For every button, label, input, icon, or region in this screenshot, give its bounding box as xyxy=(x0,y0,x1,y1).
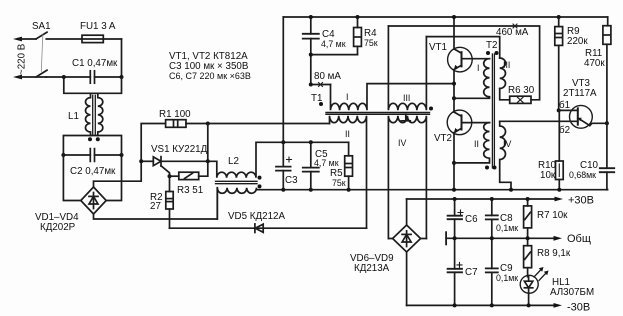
svg-text:C2 0,47мк: C2 0,47мк xyxy=(70,166,116,177)
wire top rail xyxy=(283,16,607,18)
node dot T2-IV rail xyxy=(509,188,513,192)
resistor R5 xyxy=(348,142,350,156)
resistor R4 xyxy=(357,17,359,28)
transistor VT1 xyxy=(448,47,490,72)
capacitor C8 xyxy=(486,199,498,238)
svg-text:~220 В: ~220 В xyxy=(17,43,28,75)
transformer T1 winding I xyxy=(331,84,455,111)
svg-text:C3: C3 xyxy=(285,175,298,186)
arrow -30V xyxy=(554,303,563,308)
resistor R9 xyxy=(558,17,560,27)
arrow +30V xyxy=(555,197,564,202)
wire R1 right to T1 winding II xyxy=(186,123,330,125)
svg-text:II: II xyxy=(345,129,350,139)
svg-text:IV: IV xyxy=(503,139,511,149)
node dot R9 top xyxy=(557,15,561,19)
svg-text:IV: IV xyxy=(398,138,406,148)
svg-text:КД213А: КД213А xyxy=(354,263,390,274)
svg-text:-30В: -30В xyxy=(567,302,590,314)
node dot VS1 cathode node xyxy=(206,159,210,163)
svg-text:470к: 470к xyxy=(584,58,605,69)
node dots C1 line xyxy=(62,75,66,79)
svg-text:I: I xyxy=(477,63,479,73)
svg-text:АЛ307БМ: АЛ307БМ xyxy=(550,287,594,298)
svg-text:R3 51: R3 51 xyxy=(177,185,203,196)
capacitor C6 xyxy=(448,199,463,238)
capacitor C10 xyxy=(600,123,614,189)
node dot b1 xyxy=(557,108,561,112)
bridge rectifier VD1-VD4 xyxy=(81,187,106,214)
wire C1 line xyxy=(46,76,90,78)
svg-text:VS1 КУ221Д: VS1 КУ221Д xyxy=(151,144,208,155)
capacitor C3 electrolytic xyxy=(276,142,292,189)
wire VT2 emitter xyxy=(453,133,455,190)
svg-text:R6 30: R6 30 xyxy=(508,85,535,96)
capacitor C5 xyxy=(303,142,319,189)
wire 460mA loop top xyxy=(388,26,539,100)
svg-text:27: 27 xyxy=(150,201,161,212)
node dot VT2 emitter rail xyxy=(452,188,456,192)
svg-text:R7 10к: R7 10к xyxy=(537,210,568,221)
wire obsh line xyxy=(446,237,553,239)
T1 winding I phase dot xyxy=(319,102,323,106)
svg-text:C6: C6 xyxy=(465,214,478,225)
T2 phase dots bottom xyxy=(485,166,489,170)
T2 phase dots top xyxy=(486,51,490,55)
node dot C5 bottom xyxy=(309,188,313,192)
resistor R7 xyxy=(527,199,529,206)
T1 core xyxy=(326,113,430,115)
svg-text:КД202Р: КД202Р xyxy=(40,222,76,233)
svg-text:VD5 КД212А: VD5 КД212А xyxy=(228,211,285,222)
svg-text:0,1мк: 0,1мк xyxy=(496,223,518,233)
fuse FU1 xyxy=(82,35,103,42)
node dot R1 out xyxy=(206,122,210,126)
svg-text:I: I xyxy=(346,92,348,102)
resistor R8 xyxy=(527,238,529,245)
inductor L2 bottom winding xyxy=(217,188,256,219)
L1 phase dots xyxy=(88,137,92,141)
node dot VT3 emitter R11 xyxy=(605,121,609,125)
transformer T1 winding II xyxy=(330,116,367,229)
current mark x 460mA xyxy=(513,24,517,28)
wire L1 top box xyxy=(64,77,122,93)
svg-text:II: II xyxy=(474,139,479,149)
wire R2 bottom xyxy=(169,209,171,228)
svg-text:80 мА: 80 мА xyxy=(314,71,341,82)
node dot R10 bottom xyxy=(557,188,561,192)
node dots obsh line xyxy=(453,236,457,240)
node dot VT1 collector rail xyxy=(452,15,456,19)
wire minus rail middle xyxy=(256,189,607,191)
node dot R4 top xyxy=(356,15,360,19)
node dot T2-II to bus xyxy=(452,161,456,165)
node dot T1-I to bus xyxy=(452,82,456,86)
svg-text:R8 9,1к: R8 9,1к xyxy=(537,248,571,259)
svg-text:75к: 75к xyxy=(332,178,346,188)
wire bridge2 plus up xyxy=(406,199,408,225)
svg-text:III: III xyxy=(403,93,410,103)
wire bridge left xyxy=(63,155,80,201)
capacitor C7 xyxy=(448,238,462,305)
resistor R1 xyxy=(166,120,186,128)
wire L1 bottom box xyxy=(63,136,121,156)
svg-text:0,1мк: 0,1мк xyxy=(496,273,518,283)
wire main plus riser xyxy=(282,17,284,142)
node dot T2-I to bus xyxy=(452,96,456,100)
wire bridge2 minus down xyxy=(406,252,408,305)
L2 core xyxy=(216,181,258,183)
svg-text:VT2: VT2 xyxy=(434,133,452,144)
svg-text:0,68мк: 0,68мк xyxy=(569,170,596,180)
diode VD5 xyxy=(255,224,263,233)
svg-text:FU1 3 A: FU1 3 A xyxy=(80,21,116,32)
wire right vertical to C1 line xyxy=(121,39,123,77)
transformer T1 winding III xyxy=(388,26,426,110)
svg-text:+30В: +30В xyxy=(568,195,594,207)
T2 core xyxy=(492,54,494,168)
wire bridge plus output to R1 xyxy=(94,124,166,188)
LED HL1 xyxy=(520,267,548,305)
capacitor C4 xyxy=(303,17,319,85)
wire VT1 collector xyxy=(453,17,455,49)
L1 core xyxy=(93,95,96,134)
wire C4R4 bottom link xyxy=(311,54,358,56)
svg-text:10к: 10к xyxy=(540,170,556,181)
wire -30V line xyxy=(407,304,554,306)
T1 shield xyxy=(401,114,410,121)
node dot C3 bottom xyxy=(281,188,285,192)
node dot gate junction xyxy=(168,174,172,178)
wire VD5 rail xyxy=(170,227,255,229)
svg-text:L2: L2 xyxy=(228,156,239,167)
transformer T1 winding IV xyxy=(388,116,426,239)
svg-text:VT1: VT1 xyxy=(429,42,447,53)
wire VT1 emitter bus xyxy=(453,70,455,112)
svg-text:III: III xyxy=(503,60,510,70)
node dots +30V line xyxy=(453,197,457,201)
switch SA1 xyxy=(36,32,47,77)
svg-text:С6, С7 220 мк ×63В: С6, С7 220 мк ×63В xyxy=(169,71,251,81)
svg-text:4,7 мк: 4,7 мк xyxy=(321,39,346,49)
svg-text:2Т117А: 2Т117А xyxy=(563,88,597,99)
svg-text:460 мА: 460 мА xyxy=(496,27,529,38)
current mark x 80mA xyxy=(319,83,323,87)
resistor R3 xyxy=(170,175,179,177)
svg-text:L1: L1 xyxy=(68,111,79,122)
wire R3 right up to node xyxy=(199,124,208,177)
transistor VT3 unijunction xyxy=(559,105,607,128)
transformer T2 winding IV xyxy=(500,121,511,189)
wire bridge minus output xyxy=(94,188,218,219)
transistor VT2 xyxy=(447,110,489,135)
L2 phase dots xyxy=(258,176,262,180)
wire C10 rail corner xyxy=(606,189,609,191)
svg-text:б2: б2 xyxy=(559,125,570,136)
transformer T2 winding III xyxy=(500,58,506,88)
svg-text:75к: 75к xyxy=(364,38,378,48)
node dot R5 bottom xyxy=(347,188,351,192)
wire bridge2 left stub xyxy=(388,238,392,240)
bridge rectifier VD6-VD9 xyxy=(393,225,421,252)
transformer T2 winding II xyxy=(454,123,490,163)
node dots -30V line xyxy=(453,303,457,307)
thyristor VS1 xyxy=(141,157,208,177)
transformer T2 winding I xyxy=(454,59,490,99)
svg-text:Общ: Общ xyxy=(567,233,591,245)
resistor R10 xyxy=(558,110,560,161)
svg-text:220к: 220к xyxy=(567,36,588,47)
svg-text:SA1: SA1 xyxy=(32,21,51,32)
node dots C2 line xyxy=(61,153,65,157)
svg-text:4,7 мк: 4,7 мк xyxy=(314,158,339,168)
node dots on node wire y142 xyxy=(281,140,285,144)
svg-text:T2: T2 xyxy=(486,40,497,51)
svg-text:б1: б1 xyxy=(559,100,570,111)
wire 80mA branch xyxy=(311,84,331,86)
capacitor C2 xyxy=(90,149,94,162)
svg-text:C1 0,47мк: C1 0,47мк xyxy=(72,58,118,69)
wire bridge2 right stub xyxy=(421,238,427,240)
wire top to fuse xyxy=(46,38,121,40)
resistor R2 xyxy=(169,176,171,191)
wire C2 line xyxy=(63,154,90,156)
svg-text:R1 100: R1 100 xyxy=(159,109,191,120)
wire bridge right xyxy=(106,155,121,201)
resistor R11 xyxy=(607,17,609,26)
choke L1 windings xyxy=(85,93,102,135)
T1 winding III phase dot xyxy=(429,107,433,111)
node dot 80mA xyxy=(309,83,313,87)
svg-text:C7: C7 xyxy=(465,267,478,278)
capacitor C1 xyxy=(90,71,94,83)
node dot VS1 anode xyxy=(139,159,143,163)
wire +30V line xyxy=(407,198,555,200)
wire T2-III loop xyxy=(426,37,499,58)
wire T2-IV top to VT3 b2 xyxy=(500,120,578,122)
node dots C4 chain xyxy=(309,15,313,19)
capacitor C9 xyxy=(486,238,498,305)
arrow obsh xyxy=(554,236,563,241)
resistor R6 xyxy=(510,96,531,103)
mains input arrows ~220V xyxy=(13,37,46,80)
inductor L2 top winding xyxy=(208,142,349,178)
